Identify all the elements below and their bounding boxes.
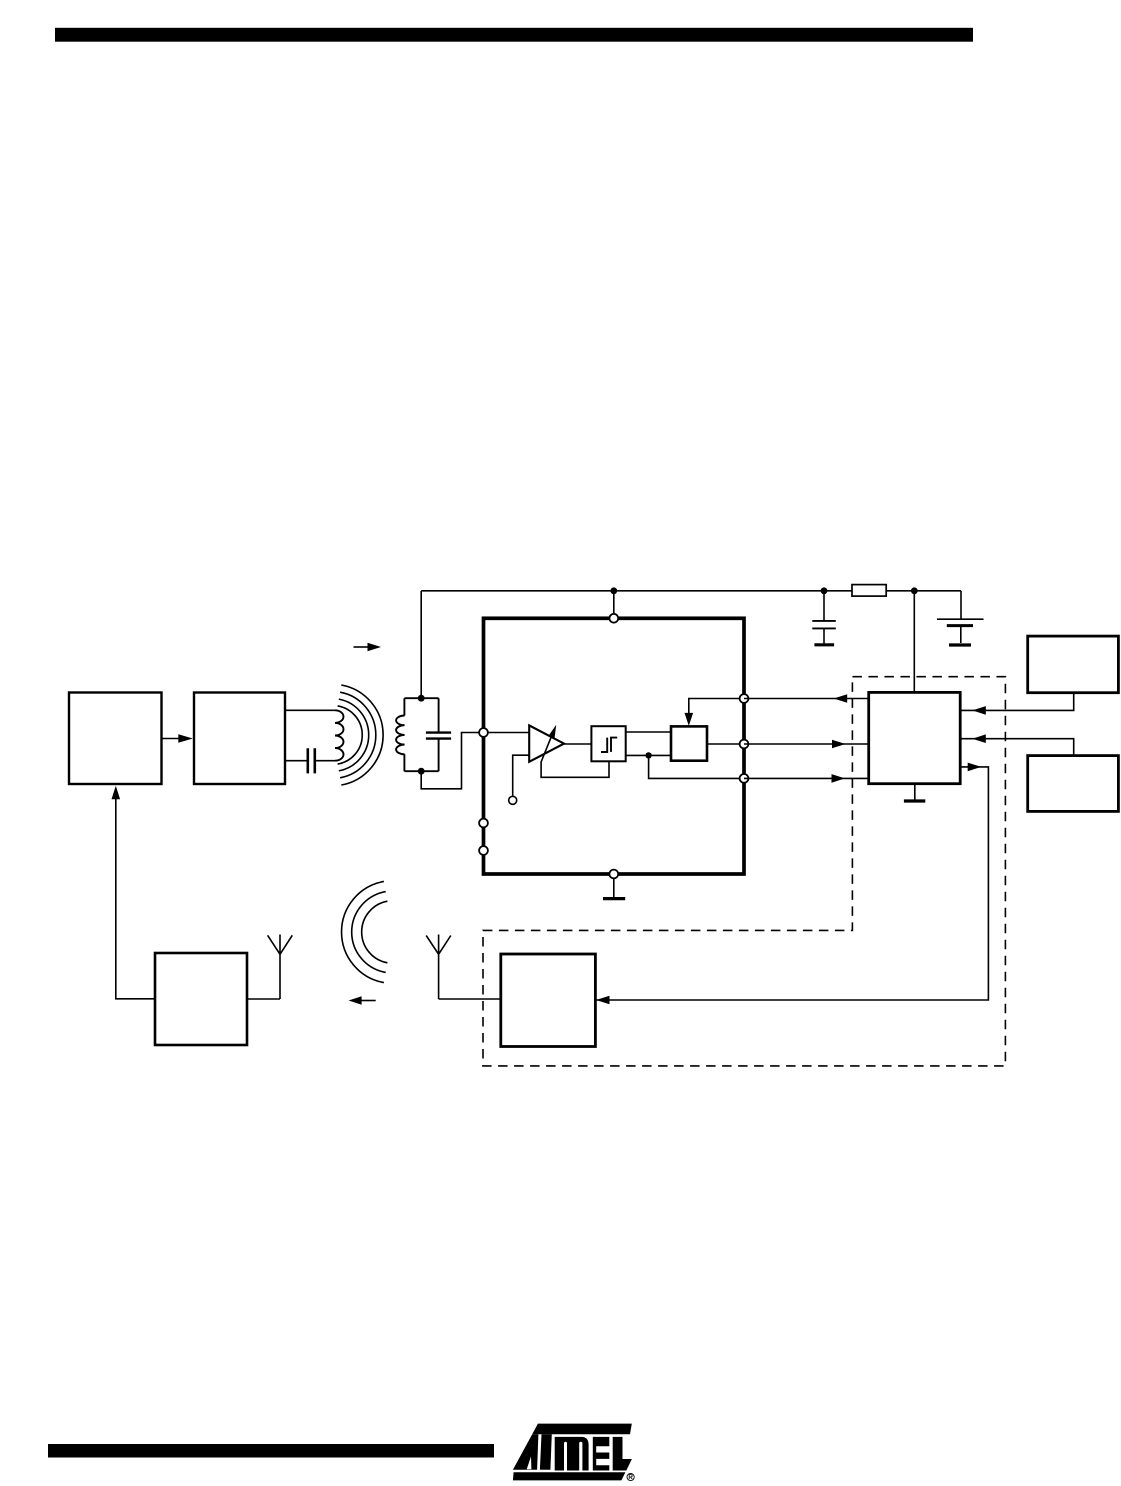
wire+arrow: control pin to modulator	[689, 699, 744, 714]
wire: tank bottom to U1 coil pin	[421, 733, 480, 789]
resistor R1	[852, 585, 886, 597]
wire: U1 pin2 to U2 with arrow	[744, 743, 869, 745]
ground (U1)	[603, 897, 625, 900]
node: tank top junction	[418, 695, 425, 702]
wire: U1 pin3 to U2 with arrow	[744, 777, 869, 779]
schmitt trigger ST1	[591, 726, 625, 761]
pin: U1 right 2	[740, 740, 749, 749]
wire: C1 to coil L1 bottom	[316, 760, 335, 762]
wire: bottom right box to U2 with arrow	[960, 739, 1073, 756]
dashed module boundary	[483, 677, 1005, 1066]
coil L2 (transponder coil)	[396, 716, 405, 755]
amplifier A1	[529, 725, 564, 761]
pin: U1 GND (bottom)	[609, 870, 618, 879]
wire: RX box to base microcontroller with arrow	[116, 797, 155, 999]
wire: data junction to output pin	[649, 755, 744, 778]
wire: transmitter to coil L1 top	[285, 709, 335, 711]
transponder tank circuit outline	[404, 698, 438, 771]
node: rail tap for capacitor C3	[821, 587, 828, 594]
capacitor C3 (buffer)	[823, 591, 825, 620]
capacitor C2 (tank)	[426, 733, 451, 739]
wire: rail to U1 VDD pin	[613, 591, 615, 615]
immobilizer box (bottom right)	[1028, 756, 1119, 812]
header bar	[55, 28, 973, 42]
wire: modulator to pin	[707, 743, 744, 745]
wire: microcontroller to transmitter with arrow	[162, 738, 181, 740]
wire: top right box to U2 with arrow	[960, 693, 1073, 711]
pin: U1 right 3	[740, 774, 749, 783]
wire: U2 to transponder TX with arrows	[595, 767, 988, 1000]
pin: U1 VDD (top)	[609, 614, 618, 623]
ground (C3)	[814, 643, 834, 646]
modulator box	[671, 726, 707, 760]
field arcs (uplink)	[362, 901, 388, 963]
registered trademark symbol	[627, 1473, 634, 1480]
node: rail tap above U1 VDD pin	[610, 587, 617, 594]
pin: U1 left 3	[479, 846, 488, 855]
wire: tank top to VDD rail	[420, 591, 422, 698]
wire: U2 to ground	[914, 784, 916, 800]
wire: U1 bottom pin to ground	[613, 879, 615, 897]
wire: schmitt to modulator (upper)	[626, 731, 671, 733]
pin: U1 coil 1	[479, 728, 488, 737]
capacitor C1 (series tuning)	[308, 748, 315, 773]
field arcs (downlink energy)	[338, 706, 363, 764]
ground (battery)	[949, 643, 971, 646]
wire: coil pin to amplifier	[484, 732, 530, 734]
node: rail tap battery / microcontroller	[911, 587, 918, 594]
antenna (transponder TX)	[426, 935, 501, 1000]
antenna (base-station RX)	[247, 935, 292, 1000]
wire: transmitter to capacitor C1	[285, 760, 307, 762]
base-station transmitter box	[194, 693, 285, 785]
wire: U1 pin1 to U2 with arrow	[744, 698, 869, 700]
node: data line junction	[645, 752, 651, 758]
gain control feedback with arrow	[541, 736, 609, 777]
VDD rail wire	[421, 590, 961, 592]
wire: VDD rail to microcontroller U2	[913, 591, 915, 693]
pin: U1 left 2	[479, 819, 488, 828]
ground (U2)	[904, 799, 925, 802]
transponder RF transmitter box	[501, 954, 596, 1047]
amplifier input tap pin	[509, 796, 517, 804]
wire: schmitt to modulator (lower data)	[626, 754, 671, 756]
coil L1 (base-station antenna)	[335, 710, 344, 760]
supervisor box (top right)	[1028, 636, 1119, 693]
microcontroller U2 box	[869, 692, 961, 783]
pin: U1 right 1	[740, 694, 749, 703]
transponder IC U1 (thick box)	[484, 618, 745, 874]
arrow: downlink direction	[354, 646, 369, 648]
node: tank bottom junction	[418, 768, 425, 775]
wire: rail corner down to battery	[960, 591, 962, 619]
base-station RF receiver box	[155, 953, 247, 1045]
wire: amplifier to schmitt trigger	[564, 743, 591, 745]
battery VBAT	[937, 618, 984, 620]
base-station microcontroller box	[69, 693, 162, 785]
Atmel logo	[513, 1424, 632, 1481]
arrow: uplink direction	[361, 1000, 376, 1002]
footer bar	[48, 1444, 494, 1458]
